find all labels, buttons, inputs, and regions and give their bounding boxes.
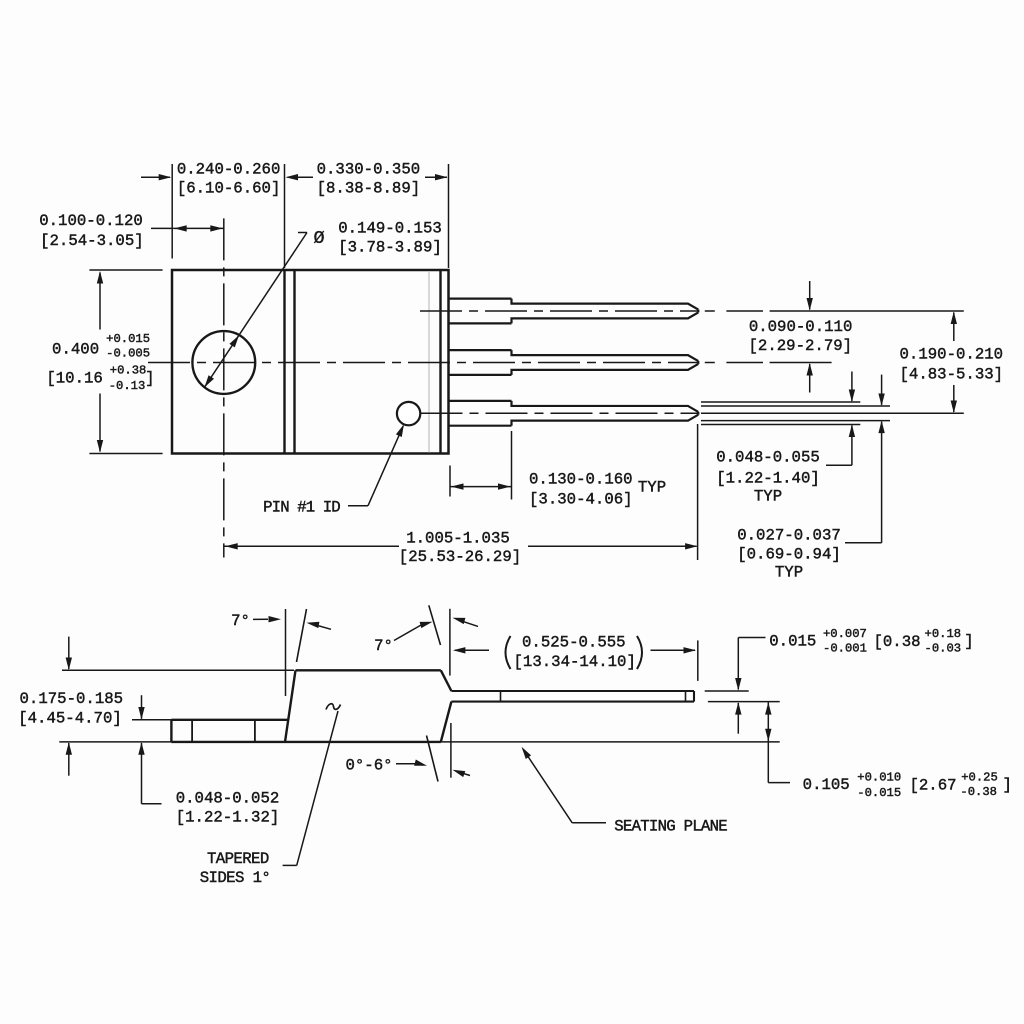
svg-text:[4.45-4.70]: [4.45-4.70] bbox=[18, 709, 122, 727]
dim 0.048-0.052 bottom arrow+elbow bbox=[138, 742, 144, 755]
svg-text:7°: 7° bbox=[374, 637, 393, 655]
mounting hole circle bbox=[192, 331, 255, 394]
svg-text:-0.005: -0.005 bbox=[106, 346, 150, 360]
hole vertical centerline bbox=[223, 218, 225, 557]
svg-text:[2.67: [2.67 bbox=[909, 777, 956, 795]
dim 0.048 bottom arrow+elbow bbox=[849, 425, 855, 438]
svg-text:[1.22-1.40]: [1.22-1.40] bbox=[716, 469, 820, 487]
lead pin 3 (top) bbox=[449, 298, 512, 300]
bottom lead centerline bbox=[421, 412, 699, 414]
svg-text:0.149-0.153: 0.149-0.153 bbox=[338, 219, 442, 237]
side body left side bbox=[285, 670, 296, 742]
svg-text:7°: 7° bbox=[231, 612, 250, 630]
svg-text:0.048-0.052: 0.048-0.052 bbox=[176, 789, 280, 807]
extension line lead base end bbox=[511, 431, 513, 500]
svg-text:-0.03: -0.03 bbox=[925, 642, 962, 656]
ext lines lead thin thickness bbox=[701, 405, 890, 407]
slanted extension right side bbox=[429, 605, 441, 645]
svg-text:0°-6°: 0°-6° bbox=[345, 756, 392, 774]
svg-text:0.130-0.160: 0.130-0.160 bbox=[529, 470, 633, 488]
body tab/mold parting line 1 bbox=[283, 270, 285, 454]
svg-text:[10.16: [10.16 bbox=[46, 370, 102, 388]
dim 0.190 bottom arrow bbox=[953, 385, 955, 412]
vertical ref line (0-6 deg) bbox=[450, 723, 452, 778]
svg-text:TYP: TYP bbox=[638, 478, 666, 496]
mid lead centerline dashes after tip bbox=[705, 362, 715, 364]
svg-text:+0.25: +0.25 bbox=[961, 770, 998, 784]
svg-text:[25.53-26.29]: [25.53-26.29] bbox=[399, 548, 521, 566]
svg-text:[3.78-3.89]: [3.78-3.89] bbox=[338, 238, 442, 256]
svg-text:[1.22-1.32]: [1.22-1.32] bbox=[176, 808, 280, 826]
svg-text:[3.30-4.06]: [3.30-4.06] bbox=[529, 490, 633, 508]
svg-text:0.240-0.260: 0.240-0.260 bbox=[177, 161, 281, 179]
dim 0.175 top arrow bbox=[68, 637, 70, 669]
svg-text:0.048-0.055: 0.048-0.055 bbox=[716, 448, 820, 466]
svg-text:0.190-0.210: 0.190-0.210 bbox=[900, 345, 1004, 363]
extension line lead tip (side view) bbox=[697, 640, 699, 681]
extension line body left top bbox=[171, 164, 173, 259]
dim 0.048-0.052 top arrow bbox=[141, 695, 143, 719]
svg-text:TYP: TYP bbox=[754, 487, 782, 505]
svg-text:]: ] bbox=[964, 632, 973, 650]
extension line body bottom left bbox=[89, 453, 162, 455]
extension line lead tip (top view) bbox=[697, 424, 699, 560]
top lead centerline dashes after tip bbox=[705, 310, 715, 312]
svg-text:PIN #1 ID: PIN #1 ID bbox=[263, 498, 340, 516]
svg-text:]: ] bbox=[145, 370, 154, 388]
extension line tab boundary top bbox=[284, 164, 286, 268]
paren close bbox=[637, 636, 642, 669]
svg-text:+0.015: +0.015 bbox=[106, 332, 150, 346]
svg-text:+0.010: +0.010 bbox=[857, 770, 901, 784]
body inner edge line near right bbox=[439, 270, 441, 454]
svg-text:[4.83-5.33]: [4.83-5.33] bbox=[900, 365, 1004, 383]
side body bottom edge bbox=[171, 741, 440, 743]
slanted extension left side bbox=[297, 609, 307, 662]
side lead top ext line bbox=[705, 690, 749, 692]
svg-text:Ø: Ø bbox=[313, 228, 324, 249]
7 deg 2 leader+arrows bbox=[394, 625, 422, 641]
dim 0.090 top arrow bbox=[809, 281, 811, 310]
side lead tick marks bbox=[500, 691, 502, 702]
svg-text:]: ] bbox=[1002, 776, 1011, 794]
svg-text:0.100-0.120: 0.100-0.120 bbox=[39, 212, 143, 230]
side lead bottom ext line bbox=[708, 701, 780, 703]
dim 0.190 top arrow bbox=[953, 313, 955, 342]
dim 1.005 line left bbox=[224, 545, 399, 547]
svg-text:0.015: 0.015 bbox=[769, 632, 816, 650]
7 deg 1 leader+arrows bbox=[253, 618, 268, 620]
ref line bottom lead right bbox=[701, 412, 964, 414]
side lead outline bbox=[451, 690, 694, 692]
side tab hole edge ticks bbox=[191, 720, 193, 742]
horizontal centerline (middle lead / body) bbox=[148, 362, 698, 364]
squiggle mark bbox=[326, 704, 341, 710]
seating plane line bbox=[59, 741, 779, 743]
dim 0.175 bottom arrow bbox=[68, 743, 70, 776]
side tab outline bbox=[171, 719, 287, 721]
svg-text:+0.007: +0.007 bbox=[823, 627, 867, 641]
top lead centerline bbox=[420, 310, 698, 312]
dim 0.015 elbow+top arrow bbox=[738, 637, 765, 639]
TO-220 body outline (top view) bbox=[172, 270, 449, 454]
dim 0.090 bottom arrow bbox=[809, 364, 811, 393]
body faint mold line bbox=[428, 271, 430, 453]
svg-text:-0.001: -0.001 bbox=[823, 642, 867, 656]
dim 0.048 top arrow bbox=[851, 372, 853, 402]
dim 0.100-0.120 double arrow bbox=[173, 227, 224, 229]
svg-text:0.090-0.110: 0.090-0.110 bbox=[749, 318, 853, 336]
svg-text:TAPERED: TAPERED bbox=[207, 850, 269, 868]
svg-text:-0.13: -0.13 bbox=[109, 379, 146, 393]
svg-text:TYP: TYP bbox=[775, 563, 803, 581]
dim 0.015 bottom arrow bbox=[737, 703, 739, 734]
ref line mid lead right bbox=[770, 362, 832, 364]
side body right lower side bbox=[441, 702, 452, 742]
svg-text:0.400: 0.400 bbox=[52, 340, 99, 358]
seating plane leader bbox=[523, 749, 572, 823]
svg-text:[2.29-2.79]: [2.29-2.79] bbox=[749, 337, 853, 355]
dim 0.330-0.350 right arrow bbox=[425, 176, 447, 178]
svg-text:0.027-0.037: 0.027-0.037 bbox=[737, 526, 841, 544]
svg-text:SEATING PLANE: SEATING PLANE bbox=[614, 818, 727, 836]
ref line top lead right bbox=[770, 310, 964, 312]
tapered sides leader bbox=[283, 864, 297, 866]
extension line body right top bbox=[448, 164, 450, 268]
dim 0.240-0.260 left arrow bbox=[141, 176, 170, 178]
side body right upper side bbox=[441, 670, 452, 691]
paren open bbox=[506, 636, 511, 669]
dim 0.525 left arrow bbox=[455, 649, 489, 651]
svg-text:+0.38: +0.38 bbox=[110, 364, 147, 378]
svg-text:[8.38-8.89]: [8.38-8.89] bbox=[317, 180, 421, 198]
vertical ref line right (7 deg) bbox=[449, 609, 451, 676]
0-6 deg slant line bbox=[427, 736, 439, 782]
svg-text:[13.34-14.10]: [13.34-14.10] bbox=[514, 653, 636, 671]
svg-text:0.175-0.185: 0.175-0.185 bbox=[20, 690, 124, 708]
svg-text:[6.10-6.60]: [6.10-6.60] bbox=[177, 180, 281, 198]
svg-text:+0.18: +0.18 bbox=[925, 627, 962, 641]
lead pin 1 (bottom) bbox=[449, 400, 512, 402]
side body top edge bbox=[296, 669, 441, 671]
pin1 leader bbox=[348, 505, 368, 507]
dim 0.105 double arrow+elbow bbox=[765, 702, 771, 715]
extension line body top left bbox=[89, 269, 162, 271]
dim 0.100-0.120 leader bbox=[151, 227, 173, 229]
dim 0.027 top arrow bbox=[881, 375, 883, 405]
svg-text:-0.38: -0.38 bbox=[960, 785, 997, 799]
svg-text:[0.69-0.94]: [0.69-0.94] bbox=[737, 545, 841, 563]
dim 0.240-0.260 right arrow bbox=[288, 176, 314, 178]
hole diameter leader line bbox=[298, 232, 307, 234]
svg-text:0.525-0.555: 0.525-0.555 bbox=[522, 634, 626, 652]
dim 0.027 bottom arrow+elbow bbox=[878, 421, 884, 434]
0-6 deg leader+arrows bbox=[396, 763, 417, 765]
ext lines lead base thickness bbox=[701, 401, 860, 403]
svg-text:1.005-1.035: 1.005-1.035 bbox=[406, 530, 510, 548]
svg-text:-0.015: -0.015 bbox=[857, 786, 901, 800]
dim 0.400 top arrow bbox=[99, 273, 101, 330]
extension line body right bottom bbox=[449, 466, 451, 497]
body tab/mold parting line 2 bbox=[293, 270, 295, 454]
svg-text:SIDES 1°: SIDES 1° bbox=[200, 869, 271, 887]
svg-text:[2.54-3.05]: [2.54-3.05] bbox=[40, 232, 144, 250]
svg-text:[0.38: [0.38 bbox=[873, 633, 920, 651]
dim 0.400 bottom arrow bbox=[99, 394, 101, 452]
svg-text:0.330-0.350: 0.330-0.350 bbox=[317, 161, 421, 179]
svg-text:0.105: 0.105 bbox=[803, 776, 850, 794]
dim 0.525 right arrow bbox=[651, 649, 696, 651]
lead pin 2 (middle) bbox=[449, 349, 512, 351]
side view top reference line bbox=[62, 669, 294, 671]
dim 0.130 double arrow bbox=[450, 486, 512, 488]
vertical ref line left (7 deg) bbox=[285, 609, 287, 696]
pin #1 ID circle bbox=[397, 402, 420, 425]
dim 1.005 line right bbox=[528, 545, 697, 547]
side tab top extension bbox=[132, 719, 171, 721]
